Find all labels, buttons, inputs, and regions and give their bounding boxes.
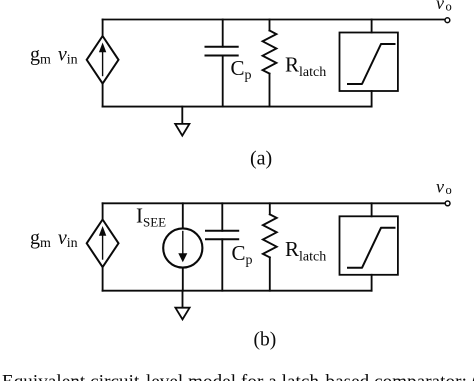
wire: capacitor Cp (b) top stem bbox=[221, 203, 223, 231]
wire: circuit (a) left branch upper bbox=[102, 20, 104, 37]
node: output terminal vo (a) bbox=[445, 18, 450, 23]
label gm vin (b) bbox=[30, 227, 78, 251]
wire: ground stem (a) bbox=[181, 107, 183, 124]
node: output terminal vo (b) bbox=[445, 201, 450, 206]
resistor Rlatch (b) zigzag bbox=[263, 214, 277, 257]
wire: circuit (a) top rail bbox=[103, 19, 445, 21]
latch limiter block (a) box bbox=[340, 33, 398, 92]
arrow of ISEE source (b) bbox=[182, 232, 184, 254]
wire: capacitor Cp (a) bottom stem bbox=[222, 56, 224, 107]
label ISEE (b) bbox=[136, 204, 166, 230]
label (a) bbox=[250, 148, 272, 170]
limiter transfer curve (b) bbox=[348, 228, 395, 268]
svg-text:gmvin: gmvin bbox=[30, 44, 78, 68]
resistor Rlatch (a) zigzag bbox=[263, 31, 277, 74]
svg-text:Equivalent circuit-level model: Equivalent circuit-level model for a lat… bbox=[2, 372, 474, 381]
wire: resistor Rlatch (a) bottom stem bbox=[269, 74, 271, 107]
svg-text:Cp: Cp bbox=[232, 241, 253, 268]
independent current source ISEE (b) circle bbox=[163, 228, 202, 267]
label Rlatch (a) bbox=[285, 53, 326, 81]
wire: capacitor Cp (a) top stem bbox=[222, 20, 224, 47]
capacitor Cp (b) plates bbox=[206, 230, 238, 232]
wire: limiter block (b) top stem bbox=[371, 203, 373, 216]
svg-text:gmvin: gmvin bbox=[30, 227, 78, 251]
label vo (a) bbox=[436, 0, 452, 14]
label gm vin (a) bbox=[30, 44, 78, 68]
wire: circuit (b) top rail bbox=[103, 202, 446, 204]
wire: circuit (b) left branch lower bbox=[102, 267, 104, 291]
dependent current source gm*vin (a) diamond bbox=[87, 36, 119, 84]
wire: resistor Rlatch (a) top stem bbox=[269, 20, 271, 31]
dependent current source gm*vin (b) diamond bbox=[87, 220, 119, 268]
wire: ISEE source (b) bottom stem bbox=[182, 268, 184, 291]
arrow of current source (a) bbox=[102, 49, 104, 76]
wire: capacitor Cp (b) bottom stem bbox=[221, 239, 223, 290]
wire: resistor Rlatch (b) top stem bbox=[269, 203, 271, 214]
svg-text:Rlatch: Rlatch bbox=[285, 237, 326, 265]
wire: ground stem (b) bbox=[182, 291, 184, 308]
svg-text:vo: vo bbox=[436, 0, 452, 14]
label (b) bbox=[254, 330, 277, 351]
label Cp (a) bbox=[231, 56, 252, 83]
wire: limiter block (a) bottom stem bbox=[371, 91, 373, 107]
svg-text:(b): (b) bbox=[254, 330, 277, 351]
ground (a) bbox=[175, 124, 189, 136]
limiter transfer curve (a) bbox=[348, 44, 395, 84]
wire: circuit (a) left branch lower bbox=[102, 84, 104, 107]
arrow of current source (b) bbox=[102, 233, 104, 260]
label Rlatch (b) bbox=[285, 237, 326, 265]
wire: limiter block (b) bottom stem bbox=[371, 275, 373, 291]
wire: circuit (b) left branch upper bbox=[102, 203, 104, 219]
wire: limiter block (a) top stem bbox=[371, 20, 373, 33]
wire: circuit (b) bottom rail bbox=[103, 290, 372, 292]
latch limiter block (b) box bbox=[340, 216, 398, 274]
svg-text:ISEE: ISEE bbox=[136, 204, 166, 230]
svg-text:vo: vo bbox=[436, 176, 452, 197]
svg-text:Rlatch: Rlatch bbox=[285, 53, 326, 81]
wire: circuit (a) bottom rail bbox=[103, 106, 372, 108]
wire: ISEE source (b) top stem bbox=[182, 203, 184, 228]
svg-text:Cp: Cp bbox=[231, 56, 252, 83]
svg-text:(a): (a) bbox=[250, 148, 272, 170]
caption text (cut off at bottom edge) bbox=[2, 372, 474, 381]
ground (b) bbox=[175, 308, 189, 320]
capacitor Cp (a) plates bbox=[206, 46, 238, 48]
wire: resistor Rlatch (b) bottom stem bbox=[269, 257, 271, 290]
label Cp (b) bbox=[232, 241, 253, 268]
label vo (b) bbox=[436, 176, 452, 197]
